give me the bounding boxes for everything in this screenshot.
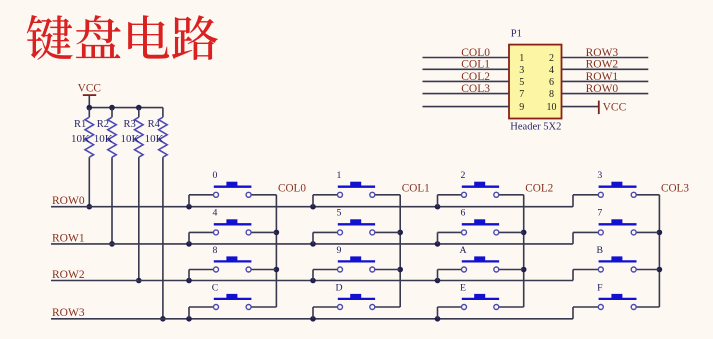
svg-text:A: A — [459, 245, 466, 256]
svg-text:4: 4 — [549, 65, 554, 76]
svg-text:P1: P1 — [511, 29, 522, 40]
svg-text:8: 8 — [213, 245, 218, 256]
junction R4/ROW3 — [160, 316, 166, 322]
svg-text:1: 1 — [519, 53, 524, 64]
wire VCC bus — [89, 107, 163, 109]
connector P1 Header 5X2 — [509, 45, 562, 119]
svg-text:8: 8 — [549, 89, 554, 100]
wire COL1 column — [399, 195, 401, 307]
svg-text:10K: 10K — [121, 133, 140, 145]
junction ROW0/key column 2 — [435, 204, 441, 210]
junction COL1/row2 — [397, 267, 403, 273]
junction ROW1/key column 2 — [435, 241, 441, 247]
svg-text:D: D — [335, 282, 342, 293]
power VCC (left) — [78, 83, 101, 108]
svg-text:5: 5 — [519, 77, 524, 88]
junction ROW0/key column 1 — [310, 204, 316, 210]
junction ROW3/key column 2 — [435, 316, 441, 322]
svg-text:6: 6 — [549, 77, 554, 88]
svg-text:2: 2 — [549, 53, 554, 64]
resistor R2 10K — [94, 108, 117, 244]
svg-text:10K: 10K — [94, 133, 113, 145]
resistor R3 10K — [121, 108, 144, 281]
switch key 5 (push button) — [313, 208, 400, 244]
junction ROW1/key column 1 — [310, 241, 316, 247]
svg-text:5: 5 — [337, 208, 342, 219]
junction COL1/row1 — [397, 230, 403, 236]
svg-text:7: 7 — [519, 89, 524, 100]
junction COL0/row1 — [274, 230, 280, 236]
junction ROW1/key column 0 — [186, 241, 192, 247]
svg-text:C: C — [212, 282, 219, 293]
svg-text:COL0: COL0 — [278, 183, 306, 195]
svg-text:3: 3 — [597, 170, 602, 181]
svg-text:9: 9 — [337, 245, 342, 256]
svg-text:E: E — [460, 282, 466, 293]
junction COL3/row1 — [657, 230, 663, 236]
svg-text:6: 6 — [461, 208, 466, 219]
pin 4 wire — [562, 68, 649, 70]
pin 9 wire — [423, 106, 510, 108]
switch key 7 (push button) — [573, 208, 659, 235]
svg-text:ROW0: ROW0 — [52, 195, 85, 207]
wire COL3 column — [658, 195, 660, 307]
junction ROW0/key column 0 — [186, 204, 192, 210]
switch key E (push button) — [438, 282, 524, 319]
switch key C (push button) — [189, 282, 276, 319]
switch key B (push button) — [573, 245, 659, 272]
switch key D (push button) — [313, 282, 400, 319]
switch key 6 (push button) — [438, 208, 524, 244]
switch key 4 (push button) — [189, 208, 276, 244]
svg-text:2: 2 — [461, 170, 466, 181]
svg-text:4: 4 — [213, 208, 218, 219]
svg-text:R3: R3 — [124, 119, 136, 130]
junction ROW2/key column 0 — [186, 278, 192, 284]
svg-text:10K: 10K — [71, 133, 90, 145]
junction on VCC bus — [87, 105, 93, 111]
junction ROW3/key column 0 — [186, 316, 192, 322]
svg-text:COL3: COL3 — [461, 83, 490, 95]
switch key 9 (push button) — [313, 245, 400, 281]
junction R3/ROW2 — [136, 278, 142, 284]
junction COL3/row2 — [657, 267, 663, 273]
svg-text:F: F — [597, 282, 603, 293]
svg-text:10: 10 — [547, 102, 557, 113]
wire COL2 column — [523, 195, 525, 307]
svg-text:ROW1: ROW1 — [52, 232, 85, 244]
svg-text:ROW1: ROW1 — [586, 71, 619, 83]
junction on VCC bus — [136, 105, 142, 111]
svg-text:R1: R1 — [74, 119, 86, 130]
junction COL2/row2 — [521, 267, 527, 273]
svg-text:1: 1 — [337, 170, 342, 181]
junction R1/ROW0 — [87, 204, 93, 210]
wire ROW3 bus — [51, 307, 573, 319]
svg-text:COL2: COL2 — [525, 183, 553, 195]
svg-text:9: 9 — [519, 102, 524, 113]
switch key 1 (push button) — [313, 170, 400, 207]
junction COL2/row1 — [521, 230, 527, 236]
wire ROW1 bus — [51, 232, 573, 244]
junction ROW3/key column 1 — [310, 316, 316, 322]
svg-text:COL2: COL2 — [461, 71, 490, 83]
svg-text:COL0: COL0 — [461, 47, 490, 59]
svg-text:R4: R4 — [148, 119, 161, 130]
title 键盘电路 — [27, 15, 218, 60]
junction ROW2/key column 1 — [310, 278, 316, 284]
svg-text:Header 5X2: Header 5X2 — [510, 122, 561, 133]
pin 5 wire — [423, 80, 510, 82]
junction on VCC bus — [109, 105, 115, 111]
svg-text:10K: 10K — [145, 133, 164, 145]
pin 10 wire — [562, 106, 599, 108]
svg-text:3: 3 — [519, 65, 524, 76]
svg-text:R2: R2 — [97, 119, 109, 130]
svg-text:ROW2: ROW2 — [586, 59, 619, 71]
pin 6 wire — [562, 80, 649, 82]
svg-text:ROW3: ROW3 — [52, 307, 85, 319]
junction ROW2/key column 2 — [435, 278, 441, 284]
svg-text:ROW2: ROW2 — [52, 269, 85, 281]
switch key 0 (push button) — [189, 170, 276, 207]
pin 7 wire — [423, 93, 510, 95]
svg-text:COL1: COL1 — [461, 59, 490, 71]
switch key F (push button) — [573, 282, 659, 309]
pin 8 wire — [562, 93, 649, 95]
pin 1 wire — [423, 57, 510, 59]
power VCC (right) — [598, 101, 627, 115]
pin 3 wire — [423, 68, 510, 70]
switch key 3 (push button) — [573, 170, 659, 197]
resistor R4 10K — [145, 108, 168, 319]
junction COL0/row2 — [274, 267, 280, 273]
svg-text:VCC: VCC — [78, 83, 101, 95]
junction R2/ROW1 — [109, 241, 115, 247]
wire COL0 column — [275, 195, 277, 307]
svg-text:COL1: COL1 — [402, 183, 430, 195]
svg-text:7: 7 — [597, 208, 602, 219]
pin 2 wire — [562, 57, 649, 59]
wire ROW2 bus — [51, 270, 573, 281]
svg-text:VCC: VCC — [603, 102, 627, 114]
wire ROW0 bus — [51, 195, 573, 207]
switch key 2 (push button) — [438, 170, 524, 207]
svg-text:ROW0: ROW0 — [586, 83, 619, 95]
svg-text:B: B — [597, 245, 604, 256]
resistor R1 10K — [71, 108, 94, 207]
svg-text:0: 0 — [213, 170, 218, 181]
svg-text:COL3: COL3 — [661, 183, 689, 195]
svg-text:ROW3: ROW3 — [586, 47, 619, 59]
switch key 8 (push button) — [189, 245, 276, 281]
switch key A (push button) — [438, 245, 524, 281]
